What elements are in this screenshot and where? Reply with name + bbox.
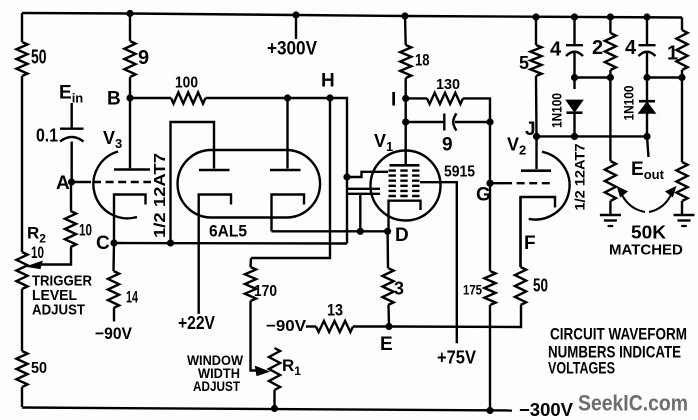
svg-text:VOLTAGES: VOLTAGES xyxy=(548,359,615,378)
wire left rail middle xyxy=(21,76,23,252)
capacitor 4 second xyxy=(646,17,648,44)
svg-text:6AL5: 6AL5 xyxy=(209,223,247,241)
wire J line xyxy=(537,135,648,137)
svg-text:1/2 12AT7: 1/2 12AT7 xyxy=(152,153,169,238)
node junction top bus / R18 branch xyxy=(401,12,408,19)
tube V2 envelope xyxy=(529,152,570,220)
svg-text:170: 170 xyxy=(254,283,277,300)
svg-text:100: 100 xyxy=(175,75,198,92)
node junction V1 grid tap xyxy=(343,173,350,180)
svg-text:14: 14 xyxy=(126,288,138,307)
svg-text:CIRCUIT WAVEFORM: CIRCUIT WAVEFORM xyxy=(550,325,687,344)
svg-text:2: 2 xyxy=(592,37,603,59)
resistor 50 lower-left xyxy=(16,351,27,387)
tube V1 grid lead mid xyxy=(347,188,380,190)
resistor 50 upper-left xyxy=(16,42,27,76)
svg-text:50: 50 xyxy=(31,47,47,69)
svg-text:−90V: −90V xyxy=(95,324,133,343)
wire cap9 right lead xyxy=(455,121,490,123)
wire bottom -300V bus xyxy=(22,408,512,411)
wire junction row a xyxy=(575,76,611,78)
tube 6AL5 right plate xyxy=(286,98,288,169)
node junction top bus +300V stub xyxy=(292,11,299,18)
svg-text:10: 10 xyxy=(79,221,92,240)
wire C4b to junction row xyxy=(646,53,648,78)
resistor 2k xyxy=(609,17,611,33)
wire +300V label stub xyxy=(295,15,297,39)
wire R14 to -90V xyxy=(113,308,115,322)
wire node G to V2 grid xyxy=(490,182,504,184)
tube V1 grid lead upper step xyxy=(347,172,388,177)
svg-text:−300V: −300V xyxy=(519,400,573,420)
wire node A down to R10 xyxy=(70,182,72,211)
wire R50F to V2 cathode / node F xyxy=(519,197,521,267)
svg-text:E: E xyxy=(380,334,393,355)
tube V1 grid mesh dashed rows xyxy=(389,169,421,171)
wire R100 to node H xyxy=(206,97,331,99)
svg-text:50: 50 xyxy=(533,276,548,296)
wire left rail to bottom bus xyxy=(21,387,23,407)
tube V2 cathode xyxy=(521,197,556,267)
svg-text:+300V: +300V xyxy=(267,39,317,60)
wire R130 to right column xyxy=(463,98,490,122)
tube V2 plate xyxy=(535,136,537,169)
resistor 130 feedback xyxy=(406,97,427,99)
wire right column from R130 corner down xyxy=(489,122,491,183)
wire node B to R100 xyxy=(130,97,171,99)
resistor 13 xyxy=(316,321,353,332)
svg-text:130: 130 xyxy=(436,76,460,93)
node junction 6AL5 right plate tap xyxy=(284,94,291,101)
tube V3 plate xyxy=(129,98,131,168)
wire 50K left to ground xyxy=(609,201,611,215)
wire H down leg xyxy=(251,98,330,258)
tube V1 grid lead lower xyxy=(347,193,380,195)
svg-text:H: H xyxy=(321,71,335,92)
wire R1k to junction row xyxy=(681,70,683,78)
wire junction row b xyxy=(647,76,682,78)
node junction diode1 / J line xyxy=(571,133,578,140)
svg-text:4: 4 xyxy=(625,37,637,59)
wire node C line xyxy=(114,242,347,245)
svg-text:10: 10 xyxy=(31,243,44,262)
capacitor 0.1 input xyxy=(60,127,84,129)
capacitor 4 first xyxy=(573,17,575,44)
resistor 10 grid leg xyxy=(65,211,76,247)
wire top +300V bus xyxy=(22,12,130,15)
tube V1 beam plate lead to +75V xyxy=(420,182,457,343)
ground right xyxy=(674,214,695,217)
wire R10 to R2 wiper xyxy=(40,247,71,265)
node junction diode2 / J line / Eout xyxy=(643,133,650,140)
wire 50K right to ground xyxy=(681,201,683,215)
wire C4a to junction row xyxy=(573,53,575,78)
tube V1 cathode xyxy=(389,201,421,232)
tube V2 grid dashed xyxy=(504,182,552,184)
wire R9 to node B xyxy=(129,77,131,98)
node junction row b left xyxy=(643,74,650,81)
node junction row a right xyxy=(607,74,614,81)
resistor 50K right xyxy=(681,78,683,163)
wire R2k to junction row xyxy=(609,70,611,78)
svg-text:50K: 50K xyxy=(631,223,666,243)
node junction bottom bus / R175 leg xyxy=(486,407,493,414)
svg-text:J: J xyxy=(525,119,536,140)
wire R170 to R1 wiper xyxy=(251,301,260,371)
diode 1N100 second xyxy=(646,78,648,101)
wire R5 to node J xyxy=(535,76,538,136)
node B xyxy=(126,94,133,101)
svg-text:+22V: +22V xyxy=(178,313,215,333)
resistor 9 plate load xyxy=(129,14,131,42)
svg-text:18: 18 xyxy=(415,51,430,70)
wire node A to V3 grid xyxy=(72,181,92,183)
node junction cap9 left xyxy=(402,118,409,125)
svg-text:50: 50 xyxy=(31,360,47,377)
node H xyxy=(326,94,333,101)
node junction row a left xyxy=(571,74,578,81)
wire H corner to inner vertical xyxy=(330,98,347,244)
tube V3 envelope xyxy=(93,152,137,219)
resistor 175 xyxy=(489,183,491,271)
diode 1N100 first xyxy=(573,78,575,90)
wire R18 to node I xyxy=(405,78,407,98)
node I xyxy=(402,95,409,102)
wire left rail lower xyxy=(21,289,23,351)
svg-text:A: A xyxy=(56,173,70,194)
node junction cap9 right xyxy=(486,118,493,125)
wire Ein lead xyxy=(70,103,72,128)
svg-text:MATCHED: MATCHED xyxy=(609,242,683,259)
resistor 18 plate load V1 xyxy=(404,16,407,45)
svg-text:1N100: 1N100 xyxy=(549,93,565,128)
tube 6AL5 right cathode xyxy=(272,195,305,232)
node C xyxy=(110,239,117,246)
potentiometer R2 body xyxy=(16,252,27,289)
svg-text:C: C xyxy=(96,233,110,254)
wire V1 grid leg to D line xyxy=(359,194,361,232)
wire left rail upper xyxy=(21,13,23,42)
svg-text:+75V: +75V xyxy=(437,348,476,368)
tube V1 plate xyxy=(405,122,407,164)
node junction row b right xyxy=(678,74,685,81)
ground left xyxy=(600,214,621,217)
node A xyxy=(68,178,75,185)
svg-text:B: B xyxy=(107,89,121,110)
wire R13 to node E xyxy=(353,325,389,327)
svg-text:ADJUST: ADJUST xyxy=(193,378,240,394)
node G xyxy=(486,180,493,187)
wire cap to node A xyxy=(70,142,72,183)
svg-text:5: 5 xyxy=(519,53,529,73)
node junction C line / 6AL5 left plate xyxy=(167,239,174,246)
resistor 3 xyxy=(386,231,389,268)
wire R3 to node E xyxy=(387,305,390,327)
tube 6AL5 envelope xyxy=(178,150,320,218)
node junction D line / V1 grid leg xyxy=(357,228,364,235)
node E xyxy=(385,323,392,330)
node junction top bus / C4b branch xyxy=(643,13,650,20)
wiper arrow R1 xyxy=(256,367,269,376)
svg-text:5915: 5915 xyxy=(444,164,475,181)
node junction bottom bus / R1 pot xyxy=(271,405,278,412)
svg-text:4: 4 xyxy=(550,39,562,61)
svg-text:SeekIC.com: SeekIC.com xyxy=(578,391,688,416)
node J xyxy=(533,133,540,140)
node D xyxy=(384,228,391,235)
resistor 50 cathode V2 xyxy=(515,267,526,305)
node junction top bus / R50 branch xyxy=(126,10,133,17)
svg-text:F: F xyxy=(524,233,536,254)
svg-text:1/2 12AT7: 1/2 12AT7 xyxy=(572,143,588,210)
wire 6AL5 right cathode to node D xyxy=(272,230,388,232)
capacitor 9 feedback xyxy=(443,114,445,131)
svg-text:175: 175 xyxy=(463,282,482,298)
wire -90V dash to R13 xyxy=(306,325,316,327)
wire cap9 left lead xyxy=(406,121,444,123)
resistor 5 xyxy=(535,17,537,45)
resistor 1k xyxy=(681,18,683,31)
node junction top bus / C4a branch xyxy=(571,13,578,20)
svg-text:13: 13 xyxy=(327,301,343,320)
wire R175 to bottom bus xyxy=(489,305,491,411)
wire R1 to bottom bus xyxy=(273,390,275,409)
resistor 100 xyxy=(171,92,206,103)
tube V3 cathode xyxy=(114,195,146,244)
resistor 170 xyxy=(249,258,252,267)
svg-text:I: I xyxy=(391,90,396,111)
svg-text:9: 9 xyxy=(138,47,149,69)
svg-text:9: 9 xyxy=(442,135,453,156)
tube 6AL5 left plate xyxy=(171,122,215,243)
wire node I to cap 9 xyxy=(405,98,407,122)
potentiometer R1 body xyxy=(269,348,280,390)
resistor 14 xyxy=(112,243,115,271)
svg-text:G: G xyxy=(476,185,491,206)
svg-text:0.1: 0.1 xyxy=(36,126,58,146)
svg-text:−90V: −90V xyxy=(266,318,306,335)
svg-text:1N100: 1N100 xyxy=(621,85,637,120)
node junction top bus / R5 branch xyxy=(532,13,539,20)
svg-text:ADJUST: ADJUST xyxy=(32,302,85,319)
matched arrow right xyxy=(649,194,672,212)
wire Eout stub xyxy=(647,136,649,157)
node junction top bus / R2k branch xyxy=(607,13,614,20)
wiper arrow R2 xyxy=(28,262,43,269)
svg-text:D: D xyxy=(395,225,409,246)
tube V1 envelope xyxy=(371,151,441,221)
svg-text:3: 3 xyxy=(394,279,404,299)
wire node E to R50F xyxy=(389,305,521,327)
tube V3 grid dashed xyxy=(93,181,151,183)
svg-text:1: 1 xyxy=(667,43,678,65)
tube 6AL5 left cathode xyxy=(199,195,231,314)
matched arrow left xyxy=(622,194,646,212)
resistor 50K left xyxy=(609,78,611,162)
